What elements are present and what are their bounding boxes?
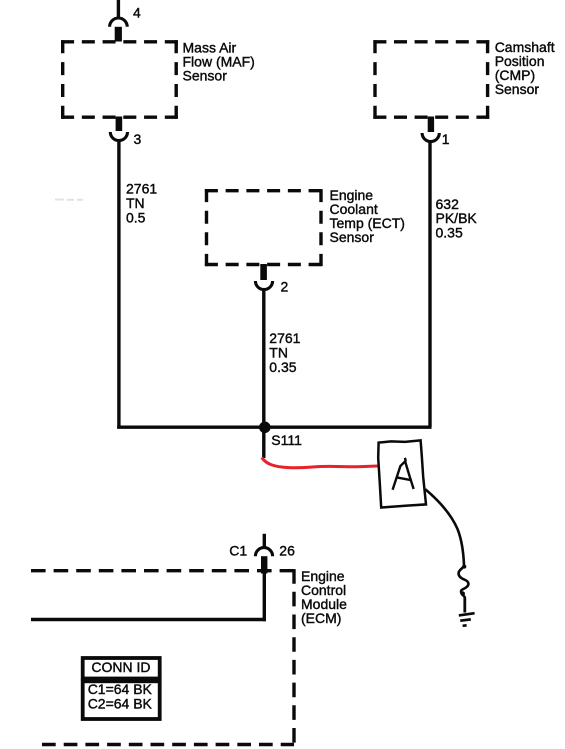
connector female terminal at MAF pin 4 [110,18,128,27]
svg-text:Sensor: Sensor [495,81,540,97]
wire into ECM connector C1 pin 26 [263,534,266,547]
svg-text:26: 26 [279,543,295,559]
connector female terminal at ECT pin 2 [255,281,272,290]
svg-text:0.5: 0.5 [126,210,146,226]
connector male pin stub ECT pin 2 [260,264,267,280]
red highlighted wire from S111 to callout A [262,458,378,468]
CONN ID body box [83,681,160,719]
wire from top into MAF pin 4 [117,0,120,18]
svg-text:(ECM): (ECM) [301,610,341,626]
CONN ID table header box [83,658,160,679]
connector female terminal at CMP pin 1 [422,133,439,142]
wire ECT pin 2 down to splice S111 [262,290,265,458]
svg-text:0.35: 0.35 [436,224,463,240]
svg-text:S111: S111 [271,432,302,448]
curved wire from callout A to ground [425,489,464,565]
ECM dashed box right edge [292,569,295,746]
wire label 2761 TN 0.35 [269,330,300,375]
connector male pin stub MAF pin 3 [116,117,123,132]
svg-text:CONN ID: CONN ID [91,659,150,675]
MAF sensor dashed box [61,40,178,119]
wire MAF pin 3 down to splice bus [117,141,120,427]
wire CMP pin 1 down to splice bus [428,142,431,427]
wire label 2761 TN 0.5 [126,181,157,226]
svg-text:0.35: 0.35 [269,359,296,375]
wire label 632 PK/BK 0.35 [436,196,478,240]
faint watermark smudge [55,199,83,201]
svg-text:1: 1 [442,131,450,147]
svg-text:Sensor: Sensor [183,67,228,83]
connector male pin stub C1 pin 26 [261,556,267,573]
svg-text:2: 2 [281,279,289,295]
connector female terminal C1 pin 26 [255,548,272,557]
ECM name label [301,568,347,626]
hand drawn letter A [393,458,414,490]
svg-text:4: 4 [133,5,141,21]
svg-text:Sensor: Sensor [330,229,375,245]
ECM dashed box bottom edge [42,743,294,746]
wire below pin 26 inside ECM [263,574,266,622]
splice junction dot S111 [259,422,271,434]
squiggle in ground wire [459,566,469,598]
connector male pin stub MAF pin 4 [115,27,122,42]
ECT sensor name label [330,187,405,245]
horizontal splice bus wire [117,426,431,429]
ground symbol [459,613,475,626]
MAF sensor name label [183,39,255,83]
CMP sensor dashed box [373,40,489,119]
horizontal wire inside ECM going left [31,618,266,621]
svg-text:C1: C1 [229,543,247,559]
knot blobs on squiggle [462,565,466,569]
ECM dashed box top edge [31,569,294,572]
CMP sensor name label [495,39,555,97]
connector female terminal at MAF pin 3 [110,132,127,141]
callout box A (hand drawn) [378,440,426,507]
svg-text:3: 3 [134,131,142,147]
svg-text:C2=64 BK: C2=64 BK [88,695,153,711]
connector male pin stub CMP pin 1 [428,117,434,133]
ECT sensor dashed box [205,189,323,266]
wire segment to ground symbol [463,598,466,613]
